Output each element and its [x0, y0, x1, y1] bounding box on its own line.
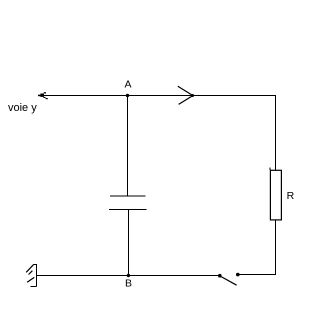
ground (wall/mass symbol)	[26, 264, 36, 287]
wire: capacitor bottom plate down to node B	[127, 209, 129, 275]
svg-text:voie y: voie y	[8, 102, 37, 114]
svg-text:A: A	[125, 79, 132, 91]
node B	[127, 274, 130, 277]
wire: top horizontal rail (voie y line)	[39, 95, 276, 97]
resistor R body	[270, 170, 281, 220]
wire: node A down to capacitor top plate	[127, 96, 129, 197]
wire: bottom rail left segment (ground to switch)	[36, 275, 220, 277]
switch K right contact	[236, 273, 240, 277]
wire: bottom rail right segment (switch to right corner)	[238, 274, 276, 276]
svg-text:R: R	[287, 190, 295, 202]
capacitor C bottom plate	[109, 208, 147, 210]
wire: right rail lower (corner up to resistor)	[275, 220, 277, 275]
switch K blade (open)	[220, 276, 237, 285]
resistor R left edge overshoot	[269, 168, 271, 170]
arrowhead left (oscilloscope probe arrow)	[38, 92, 48, 99]
capacitor C top plate	[110, 195, 146, 197]
node A	[126, 94, 129, 97]
current direction arrow (chevron)	[178, 86, 194, 104]
wire: right rail upper (top corner down to resistor)	[275, 96, 277, 172]
svg-text:B: B	[125, 278, 132, 290]
switch K left contact	[218, 274, 222, 278]
